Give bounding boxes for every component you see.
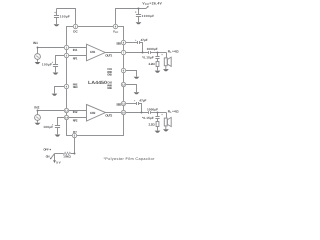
svg-text:GND: GND	[107, 73, 112, 77]
ground for C1	[54, 24, 60, 26]
wire CH1 PWR GND pin to ground	[126, 71, 137, 77]
wire NF2 to C4	[58, 118, 65, 126]
svg-text:RL=4Ω: RL=4Ω	[168, 109, 179, 113]
svg-text:5V: 5V	[56, 161, 60, 165]
pin 13 IN2	[64, 108, 68, 112]
wire C7 to R1	[157, 59, 159, 62]
svg-text:IN1: IN1	[33, 41, 38, 45]
svg-text:47µF: 47µF	[141, 38, 148, 42]
pin 8 SB1	[121, 40, 125, 44]
pin 10 OUT2	[121, 110, 125, 114]
resistor R2 2.2ohm	[156, 122, 159, 127]
capacitor C7 0.15uF lead	[157, 53, 159, 57]
wire CH1 out to OUT1 pin	[105, 52, 121, 54]
wire R1 to ground	[157, 67, 159, 71]
svg-text:GND: GND	[107, 86, 112, 90]
resistor R1 2.2ohm	[156, 62, 159, 67]
wire CH2 out to OUT2 pin	[106, 112, 122, 114]
node zobel1 junction	[157, 52, 159, 54]
wire CH2 PWR GND pin to ground	[126, 85, 137, 93]
svg-text:*0.15µF: *0.15µF	[142, 116, 154, 120]
switch S1 ON contact	[50, 158, 52, 160]
capacitor C1 100uF plates	[54, 16, 59, 18]
svg-text:CH1: CH1	[90, 50, 96, 54]
wire R2 to ground	[157, 127, 159, 131]
pin 4 PRE GND	[64, 84, 68, 88]
VCC supply arrow	[146, 7, 148, 9]
svg-text:OUT2: OUT2	[105, 113, 112, 117]
svg-text:IN2: IN2	[73, 110, 78, 114]
svg-text:1000µF: 1000µF	[142, 14, 155, 18]
wire OUT2 to coupling cap C9	[126, 112, 149, 114]
wire NF2 pin to CH2	[69, 117, 87, 119]
svg-text:2.2Ω: 2.2Ω	[148, 122, 155, 126]
capacitor C4 lead	[57, 128, 59, 135]
pin 5 RT	[72, 133, 76, 137]
pin numbers	[65, 25, 125, 137]
wire C6 to speaker SP1	[151, 52, 167, 54]
ground for CH2 PWR GND	[134, 92, 140, 94]
capacitor C2 1000uF plates	[136, 15, 141, 17]
wire SB2 to bootstrap cap C8	[126, 103, 137, 105]
ground for G2	[35, 123, 41, 125]
node zobel2 junction	[157, 112, 159, 114]
resistor R3 10k zigzag	[64, 152, 71, 155]
wire C5 to OUT1 node	[140, 43, 143, 53]
svg-text:NF2: NF2	[73, 118, 78, 122]
wire R3 to switch pole	[55, 153, 64, 155]
ground for PRE GND	[52, 94, 58, 96]
ground for C4	[55, 135, 61, 137]
svg-text:VCC=26.4V: VCC=26.4V	[142, 1, 162, 6]
pin 1 IN1	[64, 45, 68, 49]
wire DC pin riser and top-left rail	[57, 9, 76, 25]
svg-text:SB2: SB2	[116, 102, 121, 106]
pin 11 SB2	[121, 101, 125, 105]
capacitor C9 1000uF plates	[149, 111, 151, 114]
svg-text:SB1: SB1	[116, 41, 121, 45]
wire C8 to OUT2 node	[139, 104, 142, 113]
5V supply arrow	[53, 160, 56, 163]
svg-text:GND: GND	[73, 85, 78, 89]
wire NF1 pin to CH1	[69, 55, 87, 57]
wire NF1 to C3	[56, 56, 65, 65]
svg-text:DC: DC	[73, 29, 78, 33]
svg-text:*0.15µF: *0.15µF	[142, 56, 154, 60]
capacitor C4 100uF plates	[55, 126, 60, 128]
svg-text:100µF: 100µF	[42, 63, 52, 67]
svg-text:*Polyester Film Capacitor: *Polyester Film Capacitor	[103, 157, 155, 161]
node IN1 junction	[37, 47, 39, 49]
wire RT pin riser	[71, 138, 75, 154]
switch S1 lever	[51, 154, 55, 159]
ground for C2	[136, 22, 142, 24]
wire VCC pin riser and top-right rail	[116, 9, 147, 25]
wire PRE GND pin to ground	[55, 87, 65, 94]
signal source G2 circle	[35, 115, 41, 121]
svg-text:ON: ON	[46, 155, 50, 159]
capacitor C10 0.15uF lead	[157, 113, 159, 117]
speaker SP1	[166, 53, 168, 58]
op-amp CH1 triangle	[87, 44, 106, 61]
svg-text:2.2Ω: 2.2Ω	[148, 62, 155, 66]
svg-text:47µF: 47µF	[139, 98, 146, 102]
wire OUT1 to coupling cap C6	[126, 52, 149, 54]
svg-text:OUT1: OUT1	[105, 53, 112, 57]
pin 7 OUT1	[121, 50, 125, 54]
capacitor C8 47uF plates	[137, 102, 139, 105]
signal source G2 leads	[37, 111, 39, 123]
ground for SP1	[163, 69, 169, 71]
svg-text:NF1: NF1	[73, 56, 78, 60]
pin 12 CH2 PWR GND	[121, 82, 125, 86]
svg-text:LA4450: LA4450	[88, 80, 108, 85]
switch S1 OFF contact	[50, 149, 52, 151]
pin 6 CH1 PWR GND	[121, 68, 125, 72]
wire C9 to speaker SP2	[151, 112, 167, 114]
capacitor C5 47uF plates	[138, 41, 140, 44]
capacitor C2 1000uF leads	[138, 9, 140, 23]
ground for CH1 PWR GND	[134, 77, 140, 79]
IC U1 LA4450 body	[67, 27, 124, 136]
capacitor C1 100uF leads	[56, 9, 58, 25]
node SB1/OUT1 junction	[142, 52, 144, 54]
wire IN2 pin to CH2	[69, 110, 87, 112]
wire IN1 pin to CH1	[69, 47, 87, 49]
svg-text:100µF: 100µF	[60, 14, 70, 18]
ground for R2	[155, 131, 161, 133]
pin 2 NF1	[64, 53, 68, 57]
pin 14 NF2	[64, 115, 68, 119]
wire SB1 to bootstrap cap C5	[126, 42, 138, 44]
capacitor C10 plates	[155, 117, 159, 119]
speaker SP2	[166, 113, 168, 119]
wire IN2 to pin	[38, 110, 65, 112]
op-amp CH2 triangle	[87, 105, 106, 122]
pin 3 DC	[73, 24, 77, 28]
capacitor C6 1000uF plates	[149, 51, 151, 54]
wire C10 to R2	[157, 119, 159, 122]
pin circles	[64, 24, 125, 137]
ground for R1	[155, 71, 161, 73]
pin 9 VCC	[113, 24, 117, 28]
node IN2 junction	[37, 110, 39, 112]
capacitor C7 plates	[155, 57, 159, 59]
capacitor C3 lead	[55, 67, 57, 73]
ground for SP2	[163, 129, 169, 131]
node SB2/OUT2 junction	[141, 112, 143, 114]
svg-text:RT: RT	[73, 130, 77, 134]
svg-text:1000µF: 1000µF	[147, 107, 158, 111]
capacitor C3 100uF plates	[53, 65, 58, 67]
svg-text:1000µF: 1000µF	[147, 47, 158, 51]
svg-text:CH2: CH2	[90, 111, 96, 115]
signal source G1 circle	[35, 54, 41, 60]
wire IN1 to pin	[38, 47, 65, 49]
ground for G1	[35, 62, 41, 64]
junction dots	[37, 8, 159, 160]
node VCC cap junction	[138, 8, 140, 10]
svg-text:IN1: IN1	[73, 48, 78, 52]
signal source G1 leads	[37, 48, 39, 62]
svg-text:IN2: IN2	[34, 105, 39, 109]
svg-text:RL=4Ω: RL=4Ω	[168, 50, 179, 54]
svg-text:10kΩ: 10kΩ	[63, 155, 71, 159]
svg-text:OFF: OFF	[43, 148, 49, 152]
switch S1 5V lead	[54, 154, 56, 161]
ground for C3	[53, 73, 59, 75]
node RT junction	[74, 153, 76, 155]
